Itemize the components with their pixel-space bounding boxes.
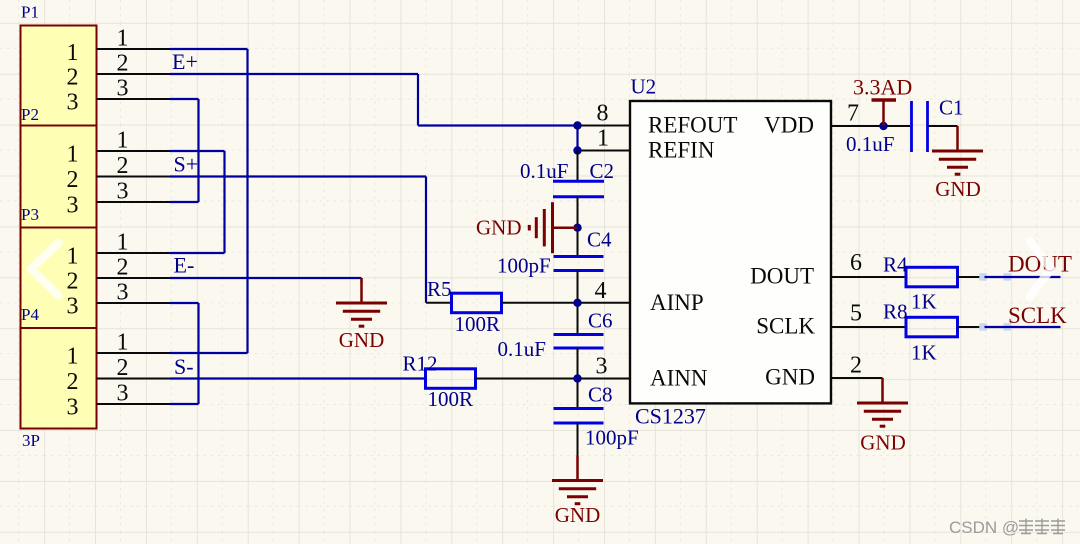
svg-text:E+: E+ [172,49,198,74]
node DOUT label [1008,251,1072,276]
R8 value 1K [911,341,937,365]
svg-text:1: 1 [67,40,79,66]
wire SCLK pin5 [831,326,907,328]
svg-text:C1: C1 [939,96,964,120]
U2 pin name REFIN [648,138,715,163]
P1 pin numbers outside [117,26,129,102]
wire vertical P1.3-P2.3 [197,99,199,202]
junction gnd tap [573,224,581,232]
svg-text:CSDN @: CSDN @ [949,518,1019,537]
svg-text:P3: P3 [21,205,39,224]
svg-text:S-: S- [174,354,194,379]
node E+ label [172,49,198,74]
svg-text:C6: C6 [588,309,613,333]
svg-text:0.1uF: 0.1uF [846,132,894,156]
P4 pin numbers inside [67,344,79,421]
svg-text:4: 4 [595,278,607,304]
wire E- horizontal [170,277,362,279]
C4 label [587,228,612,252]
svg-text:VDD: VDD [764,113,814,138]
wire SCLK net [979,323,1060,331]
3.3AD label [853,75,912,100]
capacitor C2 [553,181,604,196]
wire P1.3 to vertical [170,98,199,100]
svg-text:CS1237: CS1237 [635,404,706,429]
wire P2.1 to vertical [170,150,225,152]
P2 label [21,105,39,124]
pin number 2 [850,353,862,379]
svg-text:SCLK: SCLK [1008,303,1067,328]
svg-text:3P: 3P [22,431,40,450]
P3 label [21,205,39,224]
ground at pin2 [857,378,908,426]
ground at C1 [932,126,983,174]
ground at E- [336,278,387,326]
C1 label [939,96,964,120]
wire GND pin2 [831,377,883,379]
svg-text:DOUT: DOUT [750,264,814,289]
op-amp U2 IC body [630,101,831,403]
node E- label [174,253,195,278]
svg-text:5: 5 [850,301,862,327]
U2 pin name GND [765,365,815,390]
wire DOUT net [979,273,1060,281]
wire P3.1 to vertical [170,252,225,254]
wire R8 right [958,326,985,328]
svg-text:3: 3 [117,381,129,407]
svg-text:3: 3 [117,76,129,102]
wire R5 to AINP [502,302,630,304]
svg-text:3: 3 [67,395,79,421]
wire DOUT pin6 [831,276,907,278]
svg-text:P1: P1 [21,3,39,22]
ground below C8 [552,456,603,504]
svg-text:1: 1 [67,244,79,270]
svg-text:C8: C8 [588,383,613,407]
svg-text:P2: P2 [21,105,39,124]
svg-text:6: 6 [850,250,862,276]
3P value label [22,431,40,450]
svg-text:GND: GND [860,431,906,455]
capacitor C4 [554,257,604,271]
U2 pin name AINN [650,366,708,391]
P4 label [21,305,39,324]
svg-text:100R: 100R [428,387,474,411]
C4 value 100pF [497,254,551,278]
svg-text:U2: U2 [631,75,657,99]
U2 label [631,75,657,99]
wire C2 to gnd-tap junction [577,197,579,257]
C2 label [590,159,615,183]
carousel chevron left [31,243,59,296]
svg-text:R5: R5 [427,277,452,301]
P2 pin stubs (wires) [97,151,173,202]
svg-text:2: 2 [67,269,79,295]
svg-text:1K: 1K [911,341,937,365]
R8 label [883,300,908,324]
node S+ label [174,152,199,177]
pin number 4 [595,278,607,304]
wire P4.3 to vertical [170,403,199,405]
svg-text:2: 2 [117,355,129,381]
pin number 6 [850,250,862,276]
P3 pin numbers outside [117,230,129,306]
connector P1 body [21,26,97,429]
svg-text:2: 2 [850,353,862,379]
svg-text:SCLK: SCLK [756,314,815,339]
svg-text:3: 3 [117,179,129,205]
svg-text:2: 2 [117,153,129,179]
P1 label [21,3,39,22]
svg-text:P4: P4 [21,305,39,324]
junction VDD [879,122,887,130]
wire vertical P1.1-P4.1 [246,49,248,353]
node SCLK label [1008,303,1067,328]
pin number 7 [847,101,859,127]
svg-text:3: 3 [117,280,129,306]
svg-text:3: 3 [67,193,79,219]
svg-text:GND: GND [555,503,601,527]
P4 pin stubs (wires) [97,353,173,404]
svg-text:REFOUT: REFOUT [648,113,737,138]
GND label below C8 [555,503,601,527]
svg-text:100pF: 100pF [585,426,639,450]
wire pin8 stub [578,125,630,127]
C1 value 0.1uF [846,132,894,156]
wire P4.1 to vertical [170,352,248,354]
C6 label [588,309,613,333]
svg-text:0.1uF: 0.1uF [520,159,568,183]
svg-text:GND: GND [765,365,815,390]
svg-text:C4: C4 [587,228,612,252]
P2 pin numbers outside [117,128,129,205]
U2 pin name SCLK [756,314,815,339]
U2 pin name DOUT [750,264,814,289]
svg-text:1: 1 [67,142,79,168]
svg-text:0.1uF: 0.1uF [498,337,546,361]
pin number 5 [850,301,862,327]
svg-text:3: 3 [67,294,79,320]
svg-text:8: 8 [597,101,609,127]
P3 pin stubs (wires) [97,253,173,303]
capacitor C6 [554,335,604,349]
P4 pin numbers outside [117,330,129,407]
GND label at pin2 ground [860,431,906,455]
junction REFOUT [573,121,581,129]
svg-text:1: 1 [117,128,129,154]
svg-text:3.3AD: 3.3AD [853,75,912,100]
wire C1 to ground [929,125,958,127]
P2 pin numbers inside [67,142,79,219]
U2 pin name AINP [650,290,704,315]
resistor R8 [906,317,958,337]
svg-text:2: 2 [67,167,79,193]
R5 value 100R [455,312,501,336]
svg-text:100R: 100R [455,312,501,336]
wire vertical P3.3-P4.3 [197,303,199,404]
wire S+ horizontal [170,175,426,177]
svg-text:7: 7 [847,101,859,127]
watermark CSDN [949,518,1065,537]
capacitor C1 [912,101,928,152]
svg-text:REFIN: REFIN [648,138,715,163]
svg-text:1: 1 [117,230,129,256]
power 3.3AD bar [872,100,897,126]
wire vertical P2.1-P3.1 [223,151,225,253]
wire E+ vertical drop [417,74,419,126]
svg-text:AINN: AINN [650,366,708,391]
svg-text:C2: C2 [590,159,615,183]
pin number 8 [597,101,609,127]
svg-text:R4: R4 [883,253,908,277]
wire P3.3 to vertical [170,302,199,304]
P1 pin numbers inside [67,40,79,116]
wire C6 to AINN row [577,348,579,409]
resistor R12 [426,369,476,389]
svg-text:AINP: AINP [650,290,704,315]
GND label at E- ground [339,328,385,352]
wire VDD pin7 [831,125,911,127]
svg-text:2: 2 [67,65,79,91]
U2 pin name REFOUT [648,113,737,138]
wire R4 right [958,276,985,278]
wire REFIN down to C2 [577,151,579,182]
resistor R5 [426,293,502,313]
svg-text:E-: E- [174,253,195,278]
carousel chevron right [1030,242,1051,297]
P1 pin stubs (wires) [97,49,173,99]
svg-text:3: 3 [596,354,608,380]
P3 pin numbers inside [67,244,79,320]
svg-text:2: 2 [67,369,79,395]
svg-text:S+: S+ [174,152,199,177]
R4 label [883,253,908,277]
GND label sideways ground [476,216,522,240]
wire E+ horizontal [170,73,418,75]
wire pin1 stub [578,150,630,152]
C8 label [588,383,613,407]
pin number 3 [596,354,608,380]
wire between REFOUT/REFIN junctions [576,125,578,151]
junction AINN [573,374,581,382]
junction REFIN [573,146,581,154]
svg-text:3: 3 [67,90,79,116]
wire E- corner drop [360,278,362,283]
wire P2.3 to vertical [170,201,199,203]
U2 value CS1237 [635,404,706,429]
junction AINP [573,299,581,307]
svg-text:1: 1 [117,330,129,356]
capacitor C8 [554,409,604,424]
svg-text:2: 2 [117,51,129,77]
R12 value 100R [428,387,474,411]
ground sideways at C2/C4 tap [529,202,577,253]
svg-text:100pF: 100pF [497,254,551,278]
U2 pin name VDD [764,113,814,138]
R4 value 1K [911,290,937,314]
GND label at C1 ground [935,177,981,201]
svg-text:1: 1 [597,126,609,152]
C2 value 0.1uF [520,159,568,183]
svg-text:1K: 1K [911,290,937,314]
R12 label [403,352,438,376]
wire P1.1 to vertical [170,48,248,50]
wire E+ to REFOUT junction [418,124,578,126]
R5 label [427,277,452,301]
svg-text:R12: R12 [403,352,438,376]
svg-text:GND: GND [935,177,981,201]
resistor R4 [906,267,958,287]
svg-text:GND: GND [339,328,385,352]
wire C4 to AINP row [577,271,579,335]
svg-text:1: 1 [67,344,79,370]
wire R12 to AINN [476,378,630,380]
C6 value 0.1uF [498,337,546,361]
node S- label [174,354,194,379]
wire S+ vertical drop to R5 [425,177,427,303]
pin number 1 [597,126,609,152]
wire C8 down [577,423,579,457]
svg-text:2: 2 [117,255,129,281]
svg-text:1: 1 [117,26,129,52]
C8 value 100pF [585,426,639,450]
svg-text:GND: GND [476,216,522,240]
wire S- horizontal to R12 [170,377,426,379]
svg-text:R8: R8 [883,300,908,324]
